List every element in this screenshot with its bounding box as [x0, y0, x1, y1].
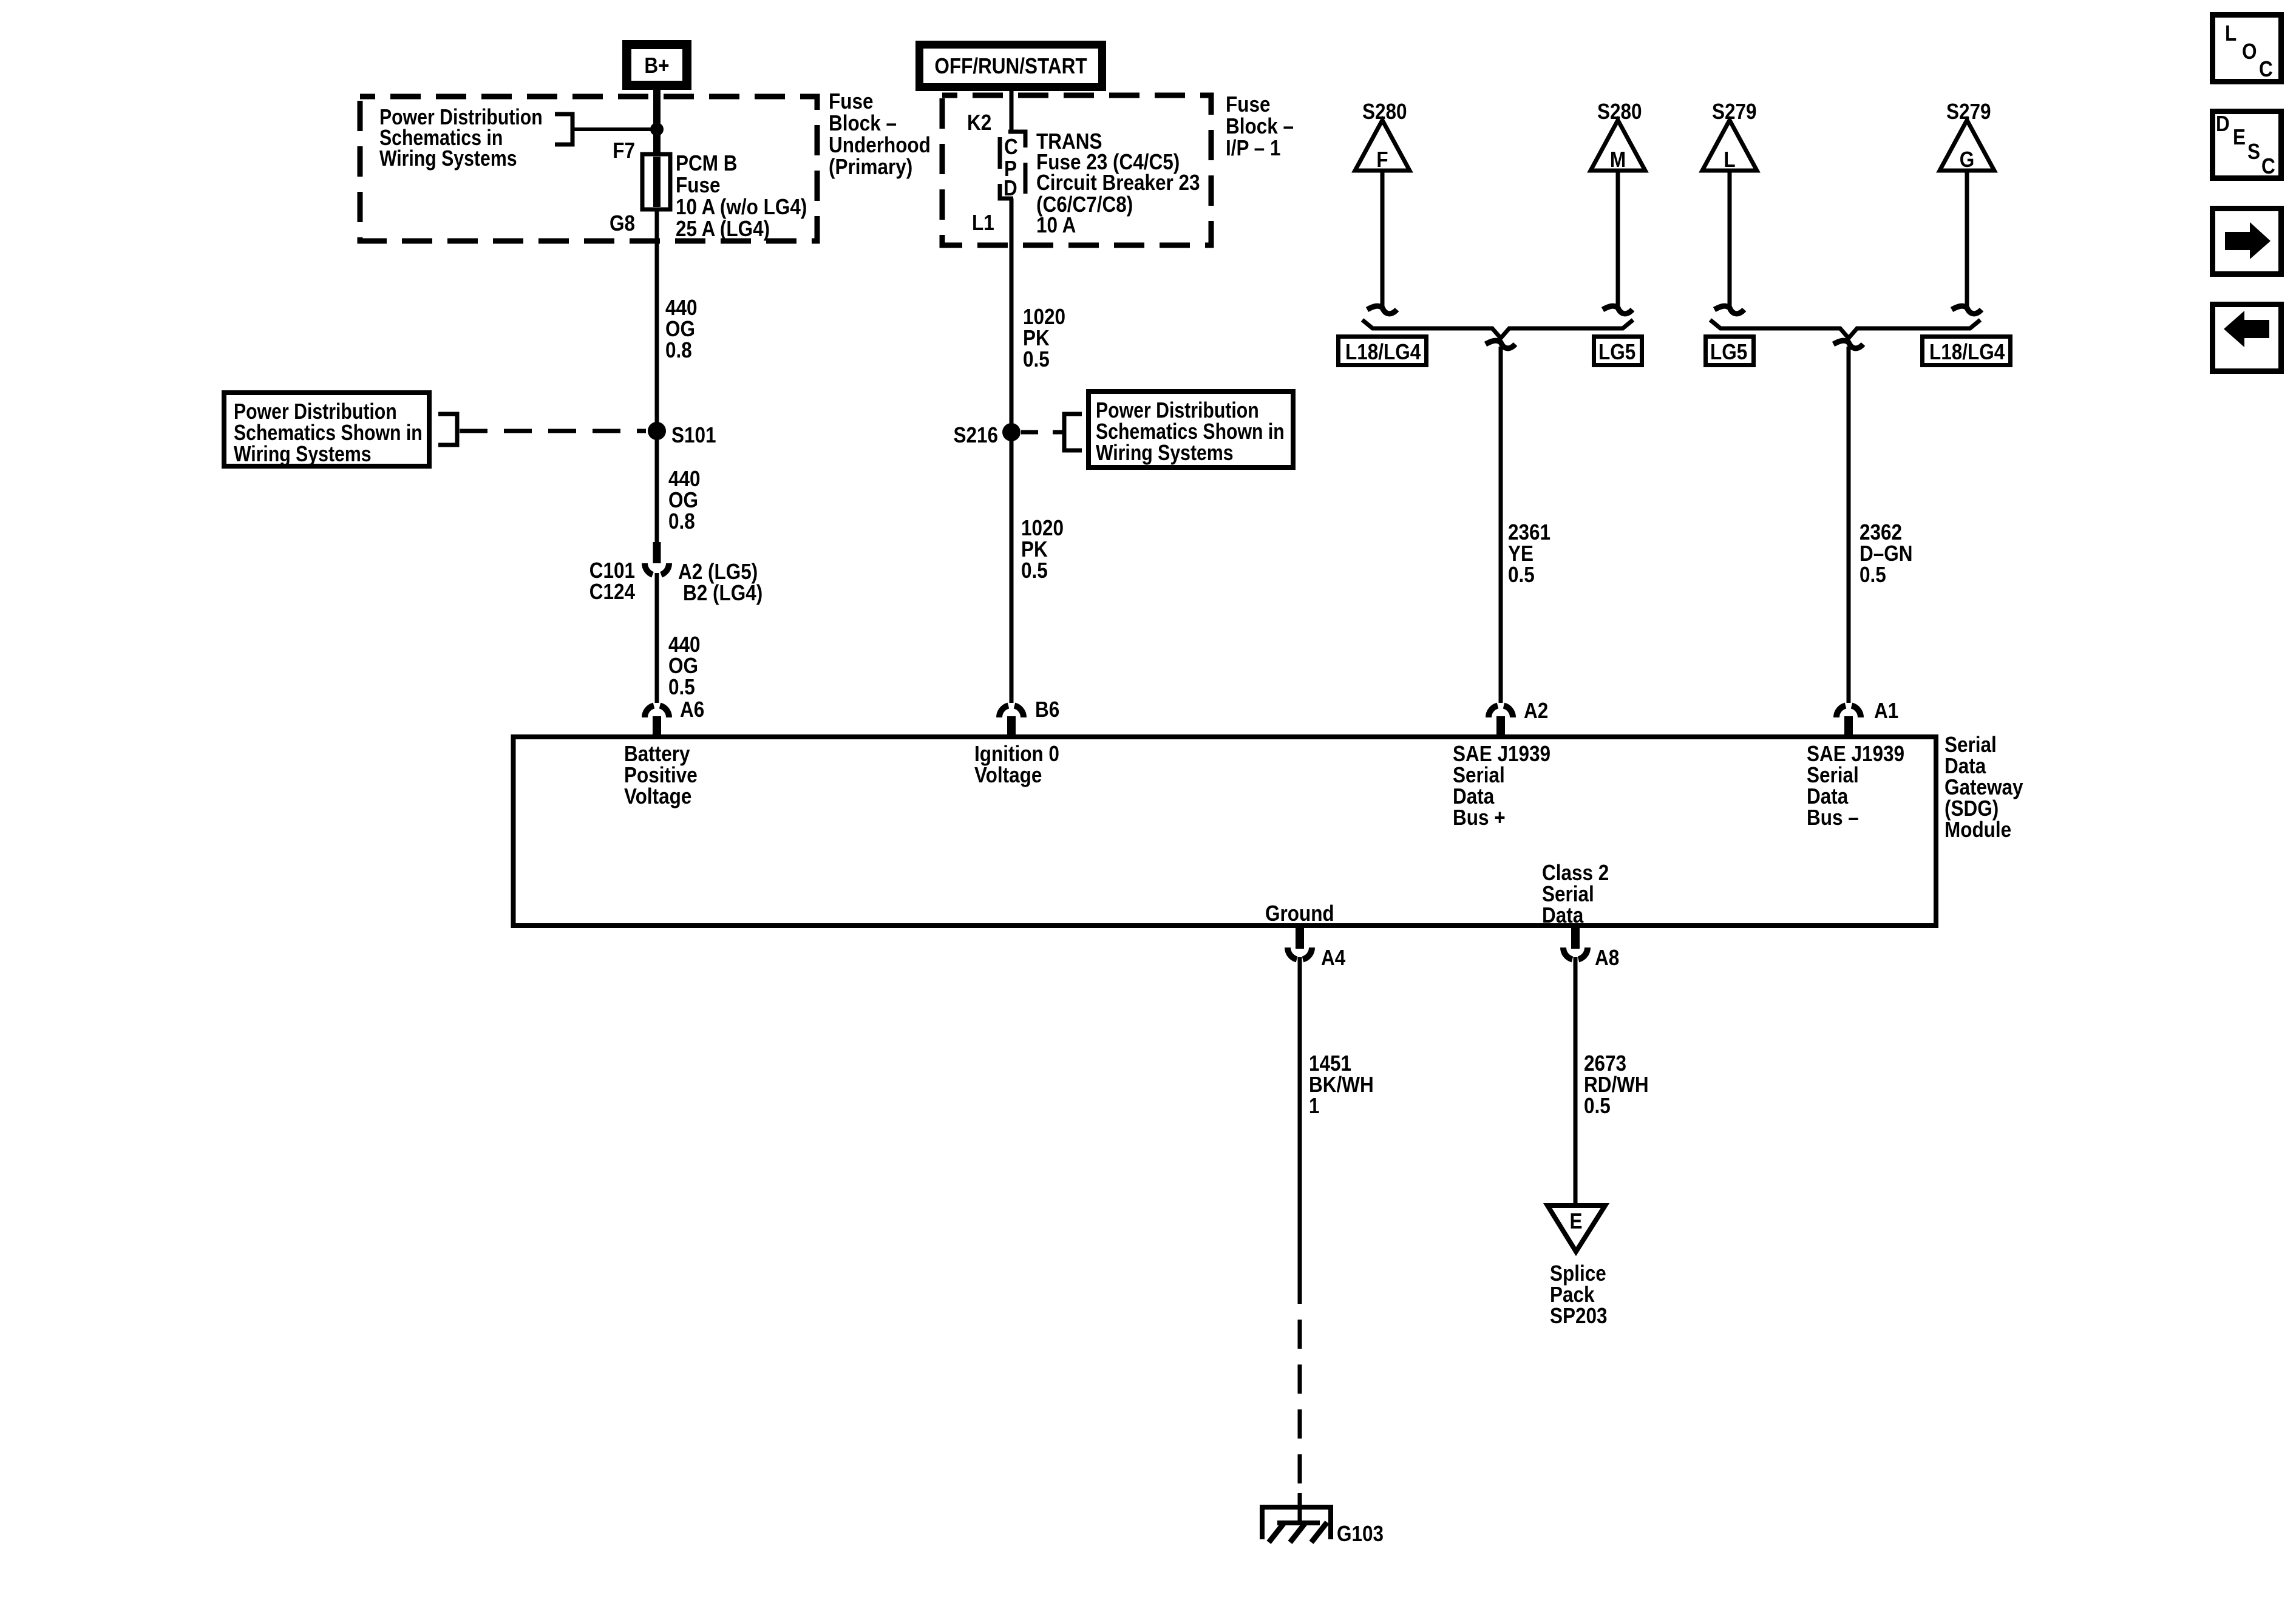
wire label 2673 RD/WH 0.5	[1584, 1051, 1649, 1118]
wire label 1020 PK 0.5 second	[1021, 516, 1064, 583]
wire from G	[1965, 172, 1969, 308]
wire from F	[1381, 172, 1385, 308]
svg-text:Fuse: Fuse	[1226, 92, 1270, 117]
splice pack E triangle	[1547, 1205, 1605, 1252]
wire 440 OG 0.5 segment	[655, 573, 659, 703]
svg-text:Fuse: Fuse	[676, 173, 720, 197]
svg-text:Bus +: Bus +	[1453, 805, 1506, 830]
svg-text:Wiring Systems: Wiring Systems	[1096, 441, 1234, 466]
S-connector S279 L	[1702, 100, 1757, 172]
S-connector S279 G	[1940, 100, 1994, 172]
fuse value label PCM B	[676, 151, 807, 241]
circuit breaker label TRANS	[1036, 129, 1200, 237]
connector labels C101 C124	[589, 558, 635, 604]
svg-text:Wiring Systems: Wiring Systems	[234, 442, 372, 467]
option box LG5 second	[1706, 337, 1754, 365]
svg-text:O: O	[2242, 39, 2257, 64]
pin B6	[999, 697, 1059, 739]
note box: power distribution schematics shown in wiring systems (left)	[224, 393, 429, 467]
fuse block I/P label	[1226, 92, 1294, 160]
wire label 440 OG 0.8	[665, 296, 698, 362]
option hook merge 2	[1833, 341, 1863, 348]
svg-text:Voltage: Voltage	[624, 784, 691, 808]
svg-text:10 A (w/o LG4): 10 A (w/o LG4)	[676, 195, 807, 219]
option box L18/LG4 second	[1923, 337, 2011, 365]
svg-text:I/P – 1: I/P – 1	[1226, 136, 1280, 160]
module pin label SAE J1939 Bus +	[1453, 742, 1550, 830]
fuse block underhood label	[829, 89, 931, 179]
svg-text:D: D	[2216, 112, 2230, 136]
svg-text:0.5: 0.5	[668, 675, 695, 699]
svg-text:A1: A1	[1874, 699, 1898, 723]
wire label 1020 PK 0.5	[1023, 305, 1065, 371]
svg-text:Wiring Systems: Wiring Systems	[379, 147, 517, 171]
wire 2361 YE	[1499, 347, 1503, 703]
svg-text:G8: G8	[610, 211, 635, 236]
icon box left arrow	[2213, 305, 2281, 371]
wire 1451 BK/WH solid part	[1298, 957, 1302, 1275]
svg-text:S216: S216	[953, 423, 998, 447]
node junction at B+ wire	[650, 123, 664, 136]
wire from bracket to junction	[572, 127, 657, 131]
module label Serial Data Gateway	[1944, 733, 2023, 842]
option brace L/G	[1710, 320, 1980, 338]
pin A2	[1489, 699, 1548, 739]
svg-text:C: C	[1004, 135, 1018, 159]
option hook F	[1367, 306, 1397, 314]
power feed B+ box	[627, 45, 687, 86]
wire 2362 D-GN	[1847, 347, 1851, 703]
option hook L	[1714, 306, 1744, 314]
svg-text:1: 1	[1309, 1094, 1320, 1118]
svg-text:L1: L1	[972, 211, 994, 235]
svg-text:A6: A6	[680, 697, 704, 722]
svg-text:0.8: 0.8	[668, 509, 695, 534]
wire label 2362 D-GN 0.5	[1860, 520, 1912, 587]
pin A4	[1288, 924, 1345, 971]
power feed OFF/RUN/START box	[920, 45, 1102, 87]
svg-text:Circuit Breaker 23: Circuit Breaker 23	[1036, 171, 1200, 195]
bracket for note 1	[555, 114, 572, 144]
fuse block underhood dashed box	[360, 97, 817, 241]
wire label 440 OG 0.5	[668, 632, 701, 699]
S-connector S280 F	[1355, 100, 1410, 172]
bracket for right note box	[1064, 414, 1082, 450]
icon box LOC	[2213, 15, 2281, 82]
svg-text:F: F	[1376, 147, 1388, 172]
wire from OFF/RUN/START	[1010, 87, 1014, 132]
svg-text:E: E	[1569, 1209, 1582, 1233]
svg-text:Ground: Ground	[1265, 901, 1334, 926]
svg-text:F7: F7	[613, 138, 635, 163]
note: power distribution schematics in wiring systems	[379, 106, 543, 171]
svg-text:0.5: 0.5	[1584, 1094, 1611, 1118]
svg-text:B+: B+	[644, 53, 669, 78]
module pin label Class 2 Serial Data	[1542, 861, 1609, 927]
ground G103	[1262, 1507, 1384, 1547]
svg-text:C124: C124	[589, 580, 635, 604]
svg-text:K2: K2	[967, 110, 991, 135]
svg-text:Block –: Block –	[829, 111, 897, 135]
svg-text:C: C	[2261, 154, 2275, 178]
module SDG box	[514, 737, 1937, 926]
svg-text:A2: A2	[1524, 699, 1548, 723]
node S216	[953, 423, 1021, 448]
svg-text:Bus –: Bus –	[1807, 805, 1859, 830]
icon box DESC	[2213, 112, 2281, 179]
option hook M	[1603, 306, 1632, 314]
svg-text:0.5: 0.5	[1023, 347, 1050, 371]
fuse F7 PCM B	[642, 154, 670, 209]
svg-text:LG5: LG5	[1598, 340, 1635, 364]
pin A6	[645, 697, 704, 739]
wire 1020 PK segment 1	[1010, 198, 1014, 703]
option brace F/M	[1362, 320, 1633, 338]
svg-text:S279: S279	[1712, 100, 1757, 124]
dashed link from S216	[1021, 430, 1062, 435]
icon box right arrow	[2213, 209, 2281, 274]
inline connector C101 C124	[645, 542, 669, 575]
svg-text:E: E	[2233, 125, 2246, 149]
svg-text:L18/LG4: L18/LG4	[1929, 340, 2005, 364]
option box L18/LG4 first	[1339, 337, 1427, 365]
svg-text:G: G	[1960, 147, 1975, 172]
option hook G	[1952, 306, 1982, 314]
wire label 2361 YE 0.5	[1508, 520, 1550, 587]
wire 1451 dashed part	[1298, 1275, 1302, 1493]
wire from L	[1728, 172, 1732, 308]
svg-text:Underhood: Underhood	[829, 133, 931, 157]
svg-text:PCM B: PCM B	[676, 151, 737, 175]
fuse block I/P dashed box	[942, 95, 1211, 245]
svg-text:D: D	[1004, 176, 1017, 200]
module pin label Battery Positive Voltage	[624, 742, 698, 808]
note box: power distribution schematics shown in wiring systems (right)	[1089, 392, 1293, 467]
svg-text:Fuse: Fuse	[829, 89, 873, 114]
svg-text:OFF/RUN/START: OFF/RUN/START	[934, 54, 1087, 78]
svg-text:25 A (LG4): 25 A (LG4)	[676, 217, 770, 241]
pin A8	[1563, 924, 1619, 971]
svg-text:B2 (LG4): B2 (LG4)	[683, 581, 763, 605]
svg-text:0.5: 0.5	[1021, 558, 1048, 583]
option hook merge 1	[1486, 341, 1515, 348]
svg-text:(Primary): (Primary)	[829, 155, 912, 179]
svg-text:Voltage: Voltage	[974, 763, 1042, 787]
svg-text:M: M	[1610, 147, 1626, 172]
svg-text:0.8: 0.8	[665, 338, 692, 362]
S-connector S280 M	[1591, 100, 1645, 172]
module pin label Ignition 0 Voltage	[974, 742, 1059, 787]
dashed link to S101	[460, 429, 646, 433]
bracket for left note box	[438, 414, 457, 445]
module pin label SAE J1939 Bus -	[1807, 742, 1904, 830]
svg-text:SP203: SP203	[1550, 1304, 1608, 1328]
svg-text:LG5: LG5	[1710, 340, 1747, 364]
svg-text:L18/LG4: L18/LG4	[1345, 340, 1421, 364]
svg-text:A4: A4	[1321, 946, 1345, 970]
svg-text:0.5: 0.5	[1860, 563, 1886, 587]
svg-text:S101: S101	[671, 423, 716, 447]
svg-text:B6: B6	[1035, 697, 1059, 722]
wire 440 OG segment 1	[655, 209, 659, 542]
wire label 440 OG 0.8 second	[668, 467, 701, 534]
circuit breaker CPD symbol	[1000, 132, 1025, 201]
svg-text:0.5: 0.5	[1508, 563, 1535, 587]
svg-text:S: S	[2247, 140, 2260, 164]
option box LG5 first	[1594, 337, 1642, 365]
svg-text:Module: Module	[1944, 818, 2011, 842]
svg-text:G103: G103	[1337, 1522, 1384, 1546]
wire B+ feed	[653, 89, 661, 155]
svg-text:Block –: Block –	[1226, 114, 1294, 138]
svg-text:A8: A8	[1595, 946, 1619, 970]
svg-text:L: L	[2225, 21, 2237, 46]
node S101	[648, 422, 716, 448]
svg-text:Data: Data	[1542, 903, 1584, 927]
svg-text:L: L	[1724, 147, 1735, 172]
wire from M	[1616, 172, 1620, 308]
svg-text:C: C	[2259, 57, 2273, 81]
svg-text:10 A: 10 A	[1036, 213, 1076, 237]
wire label 1451 BK/WH 1	[1309, 1051, 1374, 1118]
splice pack label SP203	[1550, 1261, 1608, 1328]
wire 2673 RD/WH	[1574, 957, 1578, 1205]
pin A1	[1836, 699, 1898, 739]
